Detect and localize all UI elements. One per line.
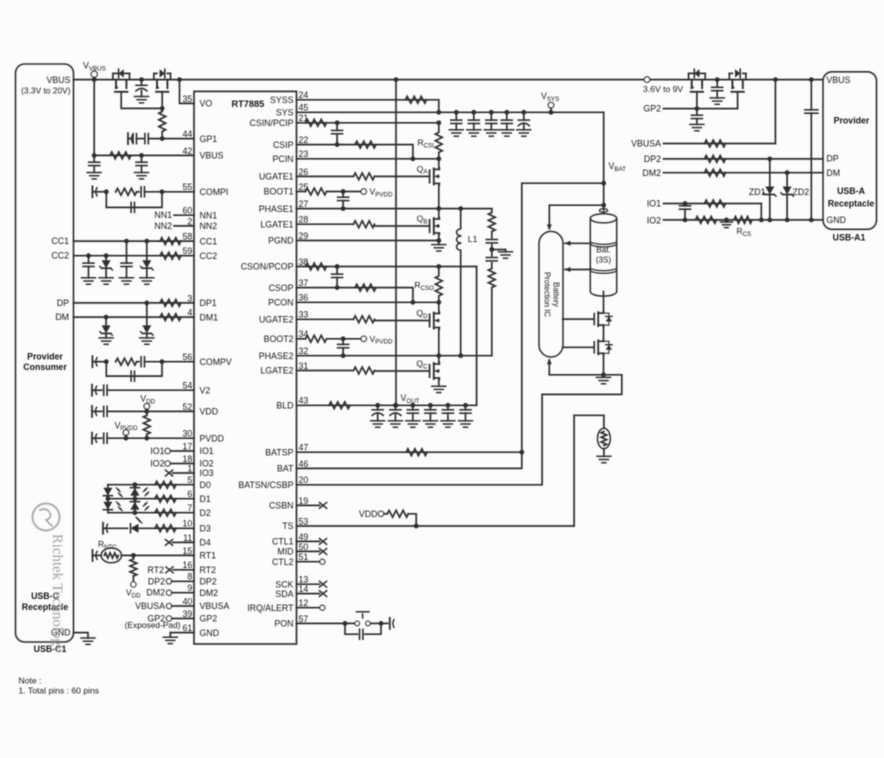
svg-text:IO2: IO2	[647, 215, 661, 225]
svg-text:DM1: DM1	[200, 312, 219, 322]
svg-text:28: 28	[299, 215, 309, 225]
svg-text:VBUSA: VBUSA	[631, 139, 661, 149]
svg-text:GP1: GP1	[200, 134, 218, 144]
svg-text:Receptacle: Receptacle	[828, 198, 875, 208]
svg-text:DP: DP	[826, 154, 838, 164]
svg-text:(Exposed-Pad): (Exposed-Pad)	[125, 620, 181, 630]
svg-text:DM2: DM2	[642, 168, 661, 178]
svg-text:LGATE1: LGATE1	[260, 219, 293, 229]
svg-text:GND: GND	[200, 628, 220, 638]
svg-text:61: 61	[183, 623, 193, 633]
svg-text:36: 36	[299, 293, 309, 303]
svg-text:45: 45	[299, 103, 309, 113]
svg-text:12: 12	[299, 598, 309, 608]
svg-text:11: 11	[183, 533, 192, 543]
svg-text:DP2: DP2	[200, 577, 217, 587]
svg-text:SYSS: SYSS	[270, 95, 294, 105]
svg-text:9: 9	[187, 583, 192, 593]
svg-text:43: 43	[299, 396, 309, 406]
svg-text:V2: V2	[200, 385, 211, 395]
svg-text:VBUS: VBUS	[47, 75, 71, 85]
svg-text:TS: TS	[282, 521, 293, 531]
svg-text:30: 30	[183, 429, 193, 439]
svg-text:23: 23	[299, 149, 309, 159]
svg-text:CTL1: CTL1	[272, 537, 294, 547]
svg-text:1. Total pins : 60 pins: 1. Total pins : 60 pins	[19, 686, 100, 696]
svg-text:56: 56	[183, 352, 193, 362]
svg-text:CTL2: CTL2	[272, 557, 294, 567]
svg-text:IO1: IO1	[647, 199, 661, 209]
svg-text:RT7885: RT7885	[232, 99, 265, 109]
svg-text:51: 51	[299, 552, 309, 562]
svg-text:IO1: IO1	[200, 446, 214, 456]
svg-text:20: 20	[299, 475, 309, 485]
svg-text:PHASE2: PHASE2	[259, 351, 294, 361]
svg-text:29: 29	[299, 231, 309, 241]
svg-text:37: 37	[299, 278, 309, 288]
svg-text:Bat.: Bat.	[596, 246, 611, 255]
svg-text:UGATE2: UGATE2	[259, 315, 294, 325]
svg-text:IRQ/ALERT: IRQ/ALERT	[247, 603, 294, 613]
svg-text:39: 39	[183, 609, 193, 619]
svg-text:NN1: NN1	[154, 210, 172, 220]
svg-text:44: 44	[183, 129, 193, 139]
svg-text:CSON/PCOP: CSON/PCOP	[241, 262, 294, 272]
svg-text:BOOT2: BOOT2	[264, 334, 294, 344]
svg-text:NN2: NN2	[200, 221, 218, 231]
svg-text:57: 57	[299, 614, 309, 624]
svg-text:DM: DM	[55, 312, 69, 322]
svg-text:USB-A1: USB-A1	[833, 233, 866, 243]
svg-text:L1: L1	[468, 234, 478, 244]
svg-text:D4: D4	[200, 538, 211, 548]
svg-text:IO3: IO3	[200, 468, 214, 478]
svg-text:47: 47	[299, 443, 309, 453]
svg-text:26: 26	[299, 167, 309, 177]
svg-text:Note :: Note :	[19, 676, 42, 686]
svg-text:VBUS: VBUS	[826, 75, 850, 85]
svg-text:CSOP: CSOP	[269, 283, 294, 293]
svg-text:22: 22	[299, 135, 309, 145]
svg-text:19: 19	[299, 496, 309, 506]
svg-text:7: 7	[187, 503, 192, 513]
svg-text:ZD2: ZD2	[793, 187, 810, 197]
svg-text:46: 46	[299, 459, 309, 469]
svg-text:(3S): (3S)	[596, 256, 612, 265]
svg-text:27: 27	[299, 199, 309, 209]
svg-text:CSIP: CSIP	[273, 140, 294, 150]
svg-text:52: 52	[183, 402, 193, 412]
svg-text:D0: D0	[200, 480, 211, 490]
svg-text:SDA: SDA	[275, 589, 293, 599]
svg-text:DM: DM	[826, 168, 840, 178]
svg-text:RT1: RT1	[200, 551, 217, 561]
svg-text:D2: D2	[200, 508, 211, 518]
svg-text:16: 16	[183, 560, 193, 570]
svg-text:PCON: PCON	[268, 298, 293, 308]
svg-text:GP2: GP2	[643, 104, 661, 114]
svg-text:VO: VO	[200, 99, 213, 109]
svg-text:PHASE1: PHASE1	[259, 204, 294, 214]
svg-text:55: 55	[183, 182, 193, 192]
svg-text:LGATE2: LGATE2	[260, 366, 293, 376]
svg-text:PON: PON	[274, 619, 293, 629]
svg-text:RT2: RT2	[200, 565, 217, 575]
svg-text:DP2: DP2	[644, 154, 661, 164]
svg-text:35: 35	[183, 94, 193, 104]
svg-text:CC2: CC2	[200, 251, 218, 261]
svg-text:Provider: Provider	[27, 352, 63, 362]
svg-text:3.6V to 9V: 3.6V to 9V	[643, 84, 683, 94]
svg-text:54: 54	[183, 381, 193, 391]
svg-text:COMPI: COMPI	[200, 187, 229, 197]
svg-text:Battery: Battery	[552, 282, 561, 307]
svg-text:PVDD: PVDD	[200, 433, 224, 443]
svg-text:2: 2	[187, 216, 192, 226]
svg-text:VBUSA: VBUSA	[135, 601, 165, 611]
svg-text:40: 40	[183, 596, 193, 606]
svg-text:CC2: CC2	[51, 251, 69, 261]
svg-text:BLD: BLD	[276, 401, 293, 411]
svg-text:BATSP: BATSP	[265, 447, 293, 457]
svg-text:18: 18	[183, 454, 193, 464]
svg-text:VBUS: VBUS	[200, 151, 224, 161]
svg-text:5: 5	[187, 475, 192, 485]
svg-text:IO2: IO2	[200, 459, 214, 469]
svg-text:49: 49	[299, 532, 309, 542]
svg-text:NN2: NN2	[154, 221, 172, 231]
svg-text:D3: D3	[200, 524, 211, 534]
svg-text:CC1: CC1	[200, 236, 218, 246]
svg-text:D1: D1	[200, 494, 211, 504]
svg-text:31: 31	[299, 361, 309, 371]
svg-text:14: 14	[299, 584, 309, 594]
svg-text:COMPV: COMPV	[200, 357, 232, 367]
svg-text:15: 15	[183, 546, 193, 556]
svg-text:42: 42	[183, 146, 193, 156]
svg-text:24: 24	[299, 90, 309, 100]
svg-text:RT2: RT2	[148, 565, 165, 575]
svg-text:VDD: VDD	[200, 407, 219, 417]
svg-text:PCIN: PCIN	[272, 154, 293, 164]
svg-text:IO1: IO1	[150, 446, 164, 456]
svg-text:17: 17	[183, 441, 193, 451]
svg-text:IO2: IO2	[150, 459, 164, 469]
svg-text:58: 58	[183, 232, 193, 242]
svg-text:(3.3V to 20V): (3.3V to 20V)	[21, 86, 71, 96]
svg-text:DM2: DM2	[200, 588, 219, 598]
svg-text:50: 50	[299, 542, 309, 552]
svg-text:VDD: VDD	[359, 509, 378, 519]
svg-text:PGND: PGND	[268, 236, 293, 246]
svg-text:DP: DP	[57, 298, 69, 308]
svg-text:4: 4	[187, 308, 192, 318]
svg-text:DP2: DP2	[148, 576, 165, 586]
svg-text:Provider: Provider	[834, 116, 870, 126]
svg-text:CC1: CC1	[51, 236, 69, 246]
svg-text:33: 33	[299, 310, 309, 320]
svg-text:60: 60	[183, 206, 193, 216]
svg-text:USB-A: USB-A	[837, 186, 866, 196]
svg-text:53: 53	[299, 516, 309, 526]
svg-text:6: 6	[187, 489, 192, 499]
svg-text:Richtek Technology: Richtek Technology	[49, 534, 65, 654]
svg-text:59: 59	[183, 246, 193, 256]
svg-text:GND: GND	[826, 215, 846, 225]
svg-text:BAT: BAT	[277, 464, 294, 474]
svg-text:3: 3	[187, 293, 192, 303]
svg-text:BATSN/CSBP: BATSN/CSBP	[238, 480, 293, 490]
svg-text:8: 8	[187, 572, 192, 582]
svg-text:SYS: SYS	[276, 108, 294, 118]
svg-text:32: 32	[299, 346, 309, 356]
svg-text:ZD1: ZD1	[749, 187, 766, 197]
svg-text:Protection IC: Protection IC	[543, 272, 552, 317]
svg-text:UGATE1: UGATE1	[259, 172, 294, 182]
svg-text:NN1: NN1	[200, 210, 218, 220]
svg-text:VBUSA: VBUSA	[200, 601, 230, 611]
svg-text:CSIN/PCIP: CSIN/PCIP	[250, 118, 294, 128]
svg-text:1: 1	[187, 463, 192, 473]
svg-text:DP1: DP1	[200, 298, 217, 308]
svg-text:MID: MID	[277, 547, 293, 557]
svg-text:10: 10	[183, 519, 193, 529]
svg-text:Consumer: Consumer	[23, 362, 67, 372]
svg-text:GP2: GP2	[200, 614, 218, 624]
svg-text:DM2: DM2	[146, 588, 165, 598]
svg-text:BOOT1: BOOT1	[264, 187, 294, 197]
svg-text:CSBN: CSBN	[269, 501, 293, 511]
